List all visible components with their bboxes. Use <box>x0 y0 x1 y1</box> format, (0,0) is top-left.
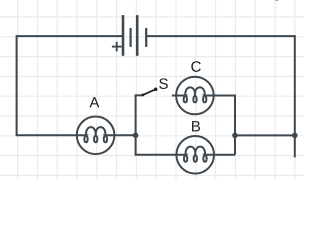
wire parallel-branch right vertical <box>234 95 236 155</box>
lamp A <box>77 117 115 155</box>
wire top-right horizontal <box>146 35 295 37</box>
wire bottom branch right <box>213 154 235 156</box>
node junction dot on right vertical <box>232 133 238 139</box>
label C <box>191 61 200 72</box>
wire middle right connector <box>235 134 295 136</box>
wire mid-left to lamp A <box>16 134 78 136</box>
node junction dot outer right <box>292 133 298 139</box>
node junction dot left <box>133 133 139 139</box>
wire lamp C to right vertical <box>213 95 235 97</box>
wire parallel-branch left vertical <box>135 95 137 155</box>
grid background <box>0 0 304 179</box>
battery BT1 plates <box>123 15 146 56</box>
wire bottom branch left <box>135 154 177 156</box>
lamp C <box>176 77 214 115</box>
wire left vertical <box>16 35 18 135</box>
wire lamp A to node <box>114 134 136 136</box>
lamp B <box>176 136 214 174</box>
wire switch contact to lamp C <box>172 95 177 97</box>
wire top-left horizontal <box>17 35 123 37</box>
label A <box>89 97 99 107</box>
label B <box>192 121 200 131</box>
label S <box>159 78 168 89</box>
switch S <box>135 88 158 97</box>
wire outer right vertical <box>294 35 296 157</box>
stray colored speck top edge <box>276 0 277 1</box>
battery plus polarity label <box>112 42 122 52</box>
